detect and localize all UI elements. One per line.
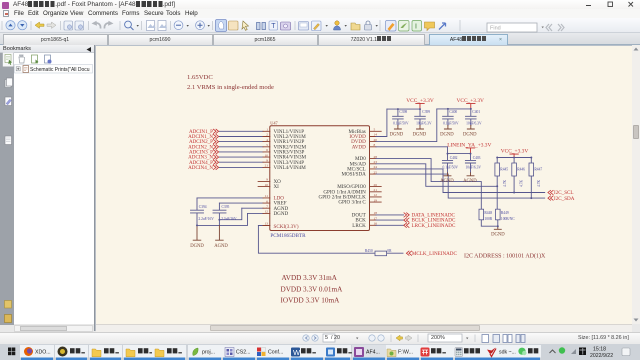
svg-text:21: 21 — [374, 188, 378, 192]
svg-text:GPIO 3/Int C: GPIO 3/Int C — [338, 200, 366, 206]
svg-text:12: 12 — [374, 193, 378, 197]
svg-text:C401: C401 — [472, 110, 480, 114]
svg-text:AGND: AGND — [214, 244, 228, 249]
svg-text:AVDD 3.3V 31mA: AVDD 3.3V 31mA — [282, 274, 338, 282]
svg-text:F:\W...: F:\W... — [398, 350, 413, 356]
svg-text:13: 13 — [265, 222, 269, 226]
svg-text:21: 21 — [265, 164, 269, 168]
svg-text:DVDD 3.3V 0.01mA: DVDD 3.3V 0.01mA — [281, 286, 344, 294]
svg-text:R446: R446 — [517, 168, 525, 172]
svg-text:26: 26 — [374, 183, 378, 187]
svg-text:AVDD: AVDD — [352, 144, 366, 150]
svg-text:5: 5 — [374, 128, 376, 132]
svg-text:I2C ADDRESS : 100101 AD(1)X: I2C ADDRESS : 100101 AD(1)X — [464, 252, 546, 259]
svg-text:VCC_+3.3V: VCC_+3.3V — [456, 98, 484, 104]
svg-text:T: T — [271, 23, 276, 30]
svg-text:10: 10 — [265, 153, 269, 157]
svg-text:LRCK: LRCK — [352, 223, 366, 229]
svg-text:C394: C394 — [199, 205, 207, 209]
svg-text:Schematic Prints("All Docu: Schematic Prints("All Docu — [30, 67, 90, 73]
svg-text:VINL4/VIN4M: VINL4/VIN4M — [274, 165, 307, 171]
svg-text:DGND: DGND — [463, 133, 477, 138]
svg-text:24: 24 — [374, 165, 378, 169]
svg-text:0.1uF/50V: 0.1uF/50V — [393, 122, 409, 126]
svg-text:XI: XI — [274, 184, 280, 190]
svg-text:C399: C399 — [422, 110, 430, 114]
svg-text:C398: C398 — [399, 110, 407, 114]
svg-text:R449: R449 — [501, 211, 509, 215]
svg-text:I2C_SDA: I2C_SDA — [554, 196, 575, 202]
svg-text:23: 23 — [374, 160, 378, 164]
svg-text:W: W — [293, 348, 301, 357]
svg-text:Find: Find — [490, 25, 501, 31]
svg-text:DGND: DGND — [413, 133, 427, 138]
svg-text:R450: R450 — [365, 249, 373, 253]
svg-text:17: 17 — [374, 216, 378, 220]
svg-text:DGND: DGND — [274, 211, 289, 217]
svg-text:LRCK_LINEINADC: LRCK_LINEINADC — [412, 223, 456, 229]
svg-text:C395: C395 — [222, 205, 230, 209]
svg-text:ADCIN4_N: ADCIN4_N — [188, 165, 213, 171]
svg-text:11: 11 — [265, 194, 269, 198]
svg-text:2.2uF/16V: 2.2uF/16V — [198, 217, 214, 221]
svg-text:MOSI/SDA: MOSI/SDA — [341, 172, 366, 178]
svg-text:LINEIN_YA_+3.3V: LINEIN_YA_+3.3V — [447, 143, 491, 149]
svg-text:PCM1865DBTR: PCM1865DBTR — [270, 233, 306, 239]
svg-text:8: 8 — [374, 143, 376, 147]
svg-text:DGND: DGND — [390, 133, 404, 138]
svg-text:VCC_+3.3V: VCC_+3.3V — [406, 98, 434, 104]
svg-text:U47: U47 — [270, 120, 278, 125]
svg-text:DGND: DGND — [190, 244, 204, 249]
svg-text:25: 25 — [374, 170, 378, 174]
svg-text:C403: C403 — [473, 156, 481, 160]
svg-text:AGND: AGND — [463, 179, 477, 184]
svg-text:0.1uF/50V: 0.1uF/50V — [443, 165, 459, 169]
svg-text:AF4...: AF4... — [366, 350, 380, 356]
svg-text:4.7K: 4.7K — [503, 180, 507, 187]
svg-text:14: 14 — [374, 133, 378, 137]
svg-text:19: 19 — [374, 198, 378, 202]
svg-text:10uF/6.3V: 10uF/6.3V — [466, 165, 482, 169]
svg-text:I: I — [415, 23, 417, 30]
svg-text:100R/NC: 100R/NC — [501, 217, 515, 221]
svg-text:AGND: AGND — [440, 179, 454, 184]
svg-text:10: 10 — [265, 183, 269, 187]
svg-text:R445: R445 — [500, 168, 508, 172]
svg-text:6: 6 — [266, 199, 268, 203]
svg-text:1: 1 — [266, 128, 268, 132]
svg-text:2.1 VRMS in single-ended mode: 2.1 VRMS in single-ended mode — [187, 84, 274, 91]
svg-text:DGND: DGND — [491, 232, 505, 237]
svg-text:6: 6 — [266, 148, 268, 152]
svg-text:16: 16 — [374, 222, 378, 226]
svg-text:VCC_+3.3V: VCC_+3.3V — [501, 149, 529, 155]
svg-text:10uF/6.3V: 10uF/6.3V — [416, 122, 432, 126]
svg-text:proj...: proj... — [202, 350, 215, 356]
svg-text:1.65VDC: 1.65VDC — [187, 74, 213, 81]
svg-text:18: 18 — [374, 211, 378, 215]
svg-text:2022/9/22: 2022/9/22 — [590, 353, 613, 359]
svg-text:LDO: LDO — [274, 196, 285, 202]
svg-text:20: 20 — [374, 138, 378, 142]
svg-text:4.7K: 4.7K — [520, 180, 524, 187]
svg-text:DGND: DGND — [440, 133, 454, 138]
svg-text:15:18: 15:18 — [593, 347, 606, 353]
svg-text:R448: R448 — [484, 211, 492, 215]
svg-text:IOVDD 3.3V 10mA: IOVDD 3.3V 10mA — [281, 297, 341, 305]
svg-text:9: 9 — [266, 178, 268, 182]
svg-text:CS2...: CS2... — [236, 350, 250, 356]
svg-text:7: 7 — [266, 204, 268, 208]
svg-text:R447: R447 — [534, 168, 542, 172]
svg-text:C400: C400 — [449, 110, 457, 114]
svg-text:MCLK_LINEINADC: MCLK_LINEINADC — [412, 251, 458, 257]
svg-text:10uF/6.3V: 10uF/6.3V — [466, 122, 482, 126]
svg-text:0.1uF/50V: 0.1uF/50V — [443, 122, 459, 126]
svg-text:4: 4 — [266, 138, 268, 142]
svg-text:2.2uF/16V: 2.2uF/16V — [221, 217, 237, 221]
svg-text:2: 2 — [266, 133, 268, 137]
svg-text:sdk ~...: sdk ~... — [499, 350, 516, 356]
svg-text:XDO...: XDO... — [35, 350, 51, 356]
svg-text:28: 28 — [374, 155, 378, 159]
svg-text:0R: 0R — [387, 249, 392, 253]
svg-text:5: 5 — [266, 143, 268, 147]
svg-text:4.7K: 4.7K — [537, 180, 541, 187]
svg-text:C402: C402 — [450, 156, 458, 160]
svg-text:12: 12 — [265, 210, 269, 214]
svg-text:100R: 100R — [484, 217, 492, 221]
svg-text:9: 9 — [266, 158, 268, 162]
svg-text:Conf...: Conf... — [268, 350, 283, 356]
svg-text:SCKI(3.3V): SCKI(3.3V) — [274, 223, 299, 230]
